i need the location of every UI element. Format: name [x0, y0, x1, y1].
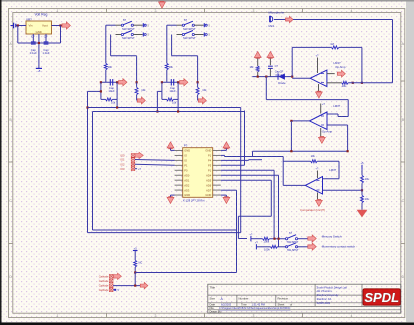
wire box1 left side [100, 82, 102, 99]
svg-text:IO1: IO1 [120, 158, 125, 162]
bus wire top A [88, 107, 241, 109]
wire chan v236 down [236, 190, 238, 272]
junction cell1 bus drop [116, 106, 118, 108]
designator S1a [123, 18, 127, 22]
wire cell2 left entry [157, 90, 162, 92]
R1c value 10k [141, 88, 146, 92]
wire U3 fb top b [317, 160, 339, 162]
wire stair y238 [238, 238, 247, 240]
wire sw1a to R1a [106, 24, 116, 26]
wire fb left [291, 47, 293, 76]
svg-text:P1: P1 [208, 168, 212, 172]
wire sw2a to R2a [167, 24, 177, 26]
wire m1 c [298, 238, 308, 240]
svg-text:1.0uF: 1.0uF [42, 51, 49, 55]
bus wire top B [93, 111, 245, 113]
svg-text:1: 1 [57, 9, 59, 13]
svg-text:AD4: AD4 [206, 173, 212, 177]
resistor R U3 10k [311, 160, 318, 163]
power +5 mercury1 [249, 233, 253, 242]
svg-text:Size: Size [210, 297, 216, 301]
svg-text:4: 4 [351, 9, 353, 13]
power port GND bar [36, 68, 42, 73]
junction cap2 right [177, 81, 179, 83]
svg-text:6/2/2003: 6/2/2003 [221, 303, 232, 307]
wire U3 minus lead [323, 178, 340, 180]
wire sw2b drop [197, 56, 199, 83]
junction U3 plus [361, 189, 363, 191]
svg-text:+5: +5 [134, 246, 138, 250]
wire mcu r5 [221, 169, 274, 171]
label SW-SPST m1 [287, 241, 299, 244]
svg-text:Drawn By:: Drawn By: [210, 310, 222, 314]
svg-text:AD0: AD0 [184, 173, 190, 177]
wire mcu br [221, 195, 227, 197]
label 10k op1 out [342, 84, 347, 88]
label Mic1 [269, 24, 275, 28]
wire 1M to rail [257, 72, 259, 77]
svg-text:IO0: IO0 [120, 154, 125, 158]
R1a value 10k [108, 65, 113, 69]
wire p5 to node [134, 267, 136, 273]
junction y151 a [290, 150, 292, 152]
svg-text:C?: C? [275, 64, 279, 68]
svg-text:10k: 10k [172, 101, 177, 105]
svg-text:1: 1 [57, 314, 59, 318]
port div2 out2 [198, 97, 206, 104]
svg-text:10k: 10k [108, 65, 113, 69]
junction node VOUT [59, 24, 61, 26]
capacitor C1 [31, 42, 36, 44]
title block frame [208, 284, 401, 313]
wire mcu tl [171, 149, 175, 151]
junction m1 a [273, 238, 275, 240]
wire cell1 left entry [88, 90, 101, 92]
label SW-SPST m2 [287, 249, 299, 252]
label Rref1 [365, 177, 370, 181]
wire sw1a left lead [116, 24, 122, 26]
label SW-SPST 2a [183, 27, 196, 31]
svg-text:AD3: AD3 [184, 188, 190, 192]
svg-text:SPDL: SPDL [364, 290, 399, 305]
wire cluster row3 [135, 164, 175, 165]
wire stair v271 [270, 180, 272, 216]
svg-text:10uF: 10uF [169, 89, 176, 93]
svg-text:94305-4021: 94305-4021 [317, 301, 331, 305]
power port VCC (1M) [254, 52, 261, 59]
wire sw2b left lead [177, 34, 183, 36]
port op1 out [337, 70, 345, 77]
label X-128 28 Pin [183, 198, 205, 202]
title block labels [210, 285, 293, 313]
label CapCF [275, 70, 284, 74]
svg-text:SW-SPST: SW-SPST [183, 36, 196, 40]
svg-text:C:\Program Files\PCB M 33\Tech: C:\Program Files\PCB M 33\Techniques\Loc… [219, 307, 291, 310]
wire U3 out [283, 184, 305, 186]
label SW-SPST 2b [183, 36, 196, 40]
R2b value 10k [172, 101, 177, 105]
wire div2 out stub [197, 95, 199, 101]
junction cell1 entry [100, 90, 102, 92]
svg-text:GND: GND [184, 149, 190, 153]
svg-text:1M: 1M [330, 42, 334, 46]
svg-text:P3: P3 [208, 163, 212, 167]
resistor Rm2 100k [271, 245, 278, 248]
wire cap row 1 [101, 81, 117, 83]
junction y151 b [347, 150, 349, 152]
designator S2b [0, 0, 1, 1]
wire op2 plus drop [347, 125, 349, 151]
svg-text:1:31:42 PM: 1:31:42 PM [252, 303, 265, 307]
wire op2 out [291, 120, 309, 122]
svg-text:SW-SPST: SW-SPST [287, 241, 299, 244]
wire op2 vminus [320, 128, 322, 137]
microphone Mic1 [270, 16, 273, 22]
connector J2b [204, 33, 210, 37]
svg-text:P0: P0 [184, 168, 188, 172]
svg-text:2: 2 [155, 314, 157, 318]
svg-text:CapCF: CapCF [275, 70, 284, 74]
svg-text:Number: Number [239, 297, 249, 301]
svg-text:0.1uF: 0.1uF [30, 51, 37, 55]
junction op2 out [290, 120, 292, 122]
wire sw2b right lead [194, 34, 203, 36]
label Comparator [300, 208, 325, 212]
wire U3 fb right [338, 161, 340, 179]
designator VR1 [26, 17, 32, 21]
svg-text:S?: S? [289, 231, 293, 235]
power port MCU top-left [167, 142, 174, 149]
label Op Amp U1 [335, 65, 346, 69]
wire cath row3 [113, 285, 141, 287]
wire m2 a [256, 246, 270, 248]
no-ERC marker Cathode y285.6 [99, 284, 113, 288]
ground (red arrow) [357, 210, 367, 217]
wire bottom cap rail [18, 42, 61, 44]
junction node VIN-A [17, 24, 19, 26]
port +5V (right) [62, 22, 70, 29]
junction cell2 bus [156, 110, 158, 112]
svg-text:Date: Date [210, 303, 216, 307]
wire capC stem [269, 59, 271, 66]
wire sw1b right lead [133, 34, 142, 36]
wire mcu r6 [221, 174, 279, 176]
label 100k m1 [264, 240, 270, 244]
svg-text:100k: 100k [264, 240, 270, 244]
switch S2b [182, 31, 194, 36]
svg-text:Microphone: Microphone [269, 11, 285, 15]
resistor Rm1 100k [263, 237, 270, 240]
port U3 vminus (down) [316, 200, 323, 207]
volt reg label [35, 13, 48, 17]
resistor R1c [135, 87, 138, 94]
wire op1 pin stub bottom [327, 82, 342, 84]
junction rail cap [265, 76, 267, 78]
switch S2a [182, 21, 194, 26]
svg-text:4: 4 [351, 314, 353, 318]
wire p5 stem [134, 251, 136, 261]
junction m1 b [278, 238, 280, 240]
resistor R1a [104, 63, 107, 70]
wire chan v252 up [252, 151, 254, 156]
svg-text:Smart Product Design Lab: Smart Product Design Lab [317, 285, 348, 289]
microphone label [269, 11, 285, 15]
no-ERC marker Cathode y280.9 [99, 279, 113, 283]
port mic (right) [286, 16, 294, 22]
svg-text:S?: S? [184, 18, 188, 22]
svg-text:IO3: IO3 [120, 167, 125, 171]
wire box2 right side [177, 82, 179, 99]
wire VR1 Vout to port [52, 25, 63, 27]
address text [317, 285, 348, 305]
wire sw1b left drop [110, 35, 112, 56]
wire R2a to cap node [166, 70, 168, 83]
wire chan y159 [249, 159, 262, 161]
C1 label [108, 86, 115, 93]
svg-text:GND: GND [184, 193, 190, 197]
label SW-SPST 1a [122, 27, 135, 31]
resistor R2c [196, 87, 199, 94]
wire m1 a [251, 238, 263, 240]
connector J2a [204, 23, 210, 27]
no-ERC marker IO2 [120, 162, 134, 166]
port cath row1 (red) [114, 273, 122, 279]
port op1 vminus (down) [316, 91, 323, 98]
wire mcu bl [171, 195, 175, 197]
designator U1 LM3? [334, 61, 341, 65]
wire sw1b left lead [116, 34, 122, 36]
net wire y272 [135, 272, 236, 274]
wire fb top a [292, 46, 331, 48]
svg-text:of: of [290, 303, 292, 307]
capacitor C mic [268, 66, 273, 68]
wire ref d [361, 203, 363, 210]
svg-text:Cathode: Cathode [99, 288, 109, 292]
junction op1 b [361, 82, 363, 84]
C2 label [169, 86, 176, 93]
label Op Amp U2 [322, 129, 333, 133]
svg-text:LM3?: LM3? [333, 104, 340, 108]
svg-text:Sheet: Sheet [278, 303, 285, 307]
svg-text:SW-SPST: SW-SPST [287, 249, 299, 252]
label Rfb [330, 42, 334, 46]
wire fb top b [339, 46, 362, 48]
switch S1b [121, 31, 133, 36]
svg-text:10uF: 10uF [108, 89, 115, 93]
wire chan v278 down [278, 175, 280, 247]
svg-text:SW-SPST: SW-SPST [122, 36, 135, 40]
wire m1 b [269, 238, 285, 240]
svg-text:Volt Reg: Volt Reg [35, 13, 48, 17]
wire sw2b across [172, 55, 198, 57]
wire conn to VR1 Vin [16, 25, 26, 27]
designator JP1 [184, 143, 188, 147]
wire cell2 entry drop [156, 91, 158, 111]
svg-text:Mic1: Mic1 [269, 24, 275, 28]
op-amp U1 [310, 70, 327, 87]
wire chan y156 [225, 156, 284, 158]
wire op1 pin stub top [327, 73, 335, 75]
wire box2 left side [161, 82, 163, 99]
label 0.1uF [276, 73, 283, 77]
wire ref b [361, 183, 363, 190]
svg-text:NC: NC [139, 261, 143, 265]
port cath row3 [140, 282, 148, 288]
wire op1 vplus [316, 54, 320, 74]
power +5 mercury2 [255, 241, 259, 250]
wire mcu r3 [221, 159, 249, 161]
wire box2 bottom left [162, 98, 167, 100]
wire m2 c [298, 246, 308, 248]
svg-text:Title: Title [210, 285, 216, 289]
svg-text:Cathode: Cathode [99, 284, 109, 288]
resistor R2a [165, 63, 168, 70]
wire VR1 to C2 [45, 34, 47, 42]
op-amp U3 comparator [305, 177, 322, 194]
svg-text:10k: 10k [111, 101, 116, 105]
svg-text:AD2: AD2 [184, 183, 190, 187]
wire left cap rail drop [17, 26, 19, 44]
svg-text:LM3?: LM3? [329, 168, 336, 172]
switch S5 mercury [286, 235, 298, 240]
switch S1a [121, 21, 133, 26]
resistor 1M [256, 66, 259, 72]
wire U3 vminus [317, 193, 319, 200]
svg-text:Vin: Vin [29, 23, 33, 27]
svg-text:Mercury Switch: Mercury Switch [322, 235, 342, 239]
capacitor C2 10uF [171, 79, 173, 85]
wire div2 stub [197, 82, 199, 87]
designator C2 [44, 35, 48, 39]
junction rectA bus [86, 106, 88, 108]
svg-text:IO2: IO2 [120, 162, 125, 166]
junction div1 node [136, 81, 138, 83]
port mercury switch [308, 235, 316, 242]
svg-text:Momentary contact switch: Momentary contact switch [322, 244, 356, 248]
wire ref c [361, 190, 363, 195]
label Rp [139, 261, 143, 265]
svg-text:P1: P1 [184, 163, 188, 167]
svg-text:Cathode: Cathode [99, 274, 109, 278]
svg-text:AD1: AD1 [184, 178, 190, 182]
wire U3 plus line [323, 189, 363, 191]
label Diode [278, 81, 286, 85]
connector P1 (power in) [11, 23, 16, 29]
port pin row1 (red) [135, 152, 143, 158]
wire fb right [361, 47, 363, 82]
svg-text:3: 3 [253, 314, 255, 318]
svg-text:S?: S? [123, 18, 127, 22]
svg-text:Revision: Revision [278, 297, 289, 301]
svg-text:10k: 10k [202, 88, 207, 92]
junction div2 node [197, 81, 199, 83]
svg-text:IO: IO [184, 154, 187, 158]
wire op2 in top [266, 99, 348, 101]
wire R2a drop [166, 25, 168, 63]
svg-text:100k: 100k [264, 248, 270, 252]
resistor Rref2 10k [361, 195, 364, 203]
wire sw1b drop [136, 56, 138, 83]
label Momentary contact switch [322, 244, 356, 248]
C2 value label [42, 48, 49, 55]
wire ref a [361, 170, 363, 175]
svg-text:AD6: AD6 [206, 183, 212, 187]
wire right cap rail drop [60, 26, 62, 44]
R2c value 10k [202, 88, 207, 92]
designator S1b [0, 0, 1, 1]
power port VCC (cap) [267, 52, 274, 59]
wire cap row 2 [162, 81, 178, 83]
svg-text:10k: 10k [365, 177, 370, 181]
junction rail fb [291, 76, 293, 78]
wire div1 out stub [136, 95, 138, 101]
no-ERC marker IO3 [120, 167, 134, 171]
svg-text:GND: GND [36, 30, 42, 34]
wire op2 left rail [290, 121, 292, 151]
svg-text:Op Amp: Op Amp [322, 129, 333, 133]
wire cell1 bus drop [116, 99, 118, 107]
connector J1a [143, 23, 149, 27]
wire box1 bottom right [113, 98, 118, 100]
op-amp U2 [310, 112, 328, 130]
svg-text:Cathode: Cathode [99, 279, 109, 283]
capacitor C1 10uF [110, 79, 112, 85]
wire op2 minus lead [327, 114, 348, 117]
wire mcu r2 [221, 154, 225, 156]
wire VR1 to C1 [32, 34, 34, 42]
port (sheet top, down arrow) [159, 2, 166, 9]
junction p5 node [134, 271, 136, 273]
designator C1 [31, 35, 35, 39]
junction op1 a [352, 82, 354, 84]
port divider1 out [119, 79, 127, 86]
wire mcu r9 [221, 189, 237, 191]
designator S5 [289, 231, 293, 235]
svg-text:10k: 10k [365, 197, 370, 201]
wire mic out [274, 19, 286, 21]
svg-text:1M: 1M [250, 65, 255, 69]
wire sw1b across [111, 55, 137, 57]
power port MCU top-right [223, 142, 230, 149]
net rect A left [87, 91, 89, 232]
svg-text:GND: GND [205, 149, 211, 153]
resistor Rfb 1M [331, 46, 339, 49]
label SW-SPST 1b [122, 36, 135, 40]
wire U3 fb left [282, 157, 284, 186]
wire 1M stem [257, 59, 259, 67]
svg-text:111 Thornton: 111 Thornton [317, 289, 333, 293]
label Mercury Switch [322, 235, 342, 239]
wire mic input rail [252, 76, 292, 78]
resistor R2b [167, 98, 174, 101]
power +5 bottom [133, 246, 138, 250]
svg-text:X-128 JP? 28 Pin: X-128 JP? 28 Pin [183, 198, 205, 202]
wire div1 stub [136, 82, 138, 87]
wire box2 bottom right [174, 98, 179, 100]
power marker row4 [135, 167, 142, 171]
wire cell2 bus drop [177, 99, 179, 111]
svg-text:10k: 10k [311, 154, 316, 158]
svg-text:2: 2 [155, 9, 157, 13]
junction cap1 left [100, 81, 102, 83]
resistor R 10k (op1 out) [342, 81, 348, 84]
label 100k m2 [264, 248, 270, 252]
svg-text:SW-SPST: SW-SPST [183, 27, 196, 31]
wire sw2a right lead [194, 24, 203, 26]
wire mcu r7 [221, 179, 271, 181]
connector J1b [143, 33, 149, 37]
svg-text:3: 3 [253, 9, 255, 13]
